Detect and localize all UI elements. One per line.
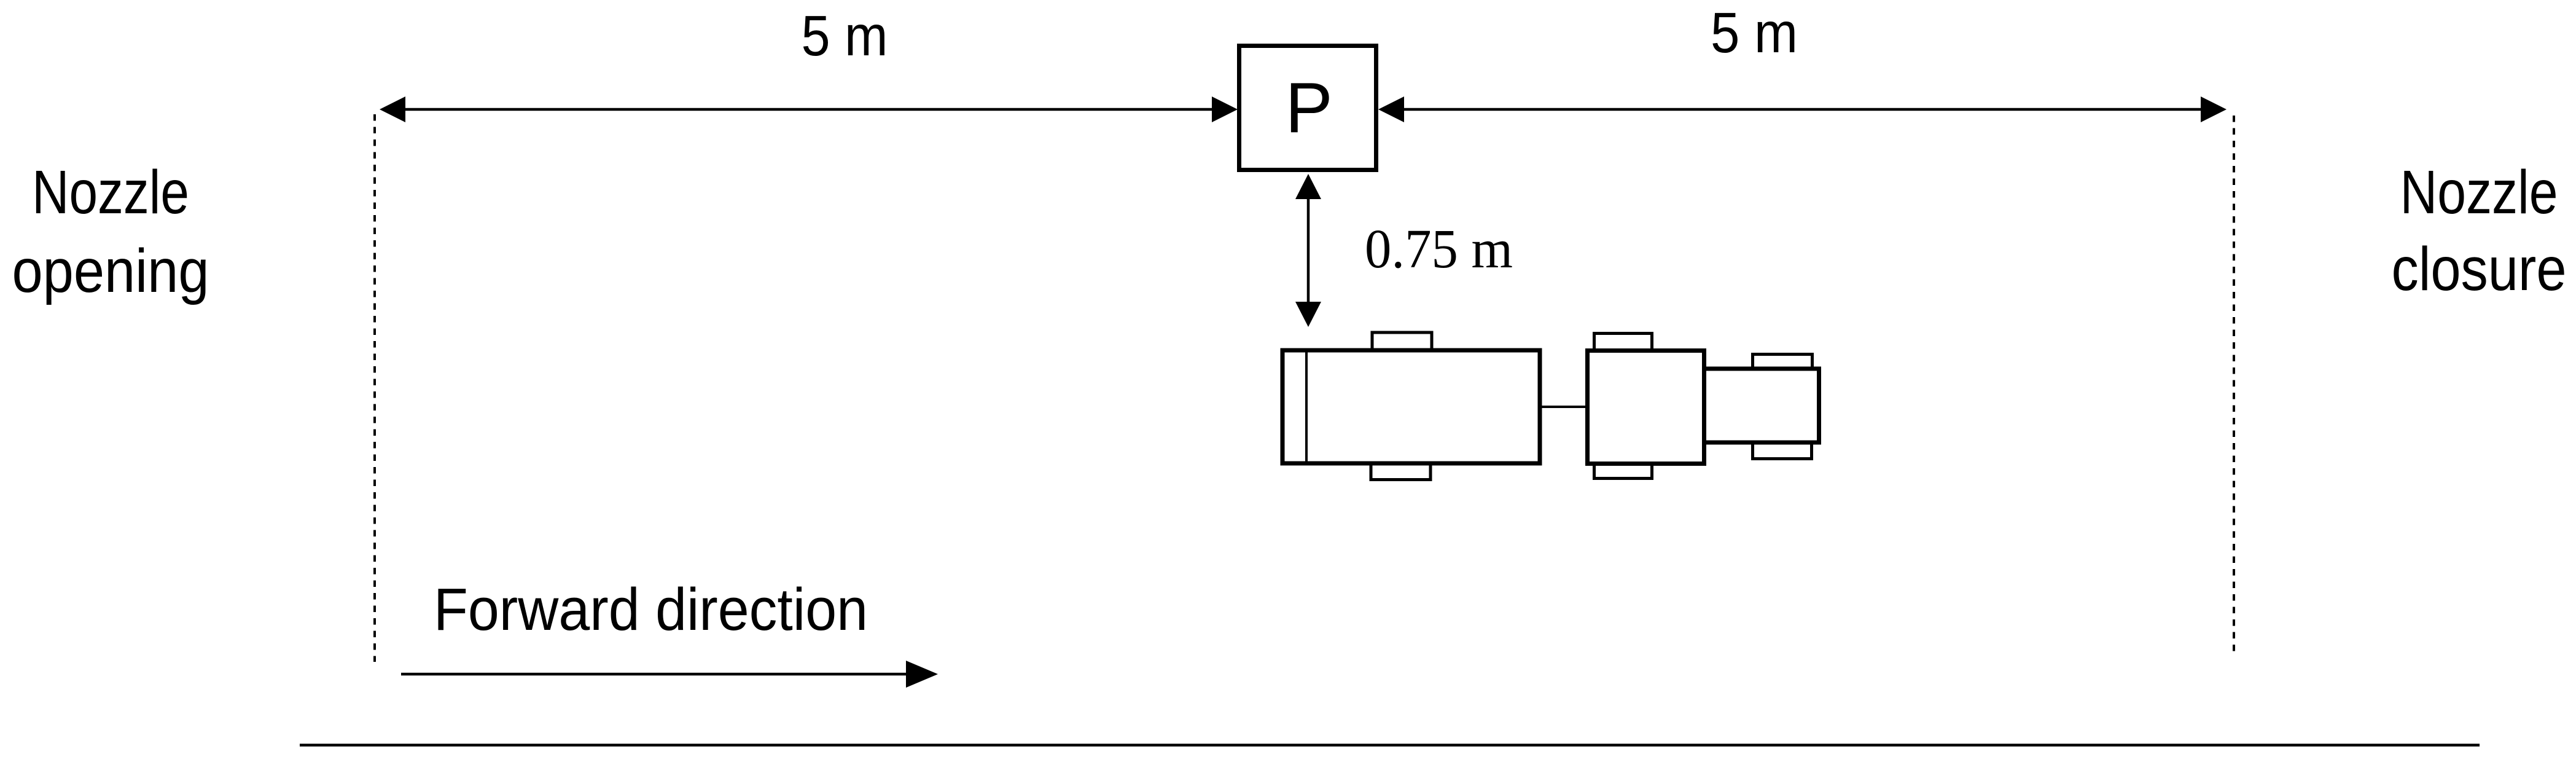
svg-text:Nozzle: Nozzle	[32, 158, 189, 227]
svg-text:5 m: 5 m	[802, 4, 888, 68]
svg-text:opening: opening	[12, 237, 209, 305]
svg-text:P: P	[1285, 68, 1332, 147]
svg-text:0.75 m: 0.75 m	[1365, 219, 1513, 280]
svg-text:Forward direction: Forward direction	[434, 576, 868, 643]
svg-text:5 m: 5 m	[1711, 1, 1798, 65]
svg-text:closure: closure	[2392, 235, 2567, 304]
svg-text:Nozzle: Nozzle	[2400, 158, 2558, 227]
